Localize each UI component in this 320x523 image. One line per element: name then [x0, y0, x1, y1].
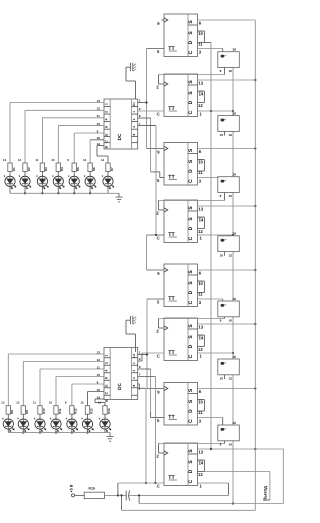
svg-text:C: C — [188, 236, 194, 240]
svg-text:U1: U1 — [132, 353, 136, 357]
LED HL1 — [2, 414, 14, 432]
svg-text:13: 13 — [3, 158, 7, 162]
capacitor C3 with ground — [126, 316, 136, 324]
junction LED4 on cathode rail — [57, 192, 59, 194]
DD6 Q-bar to D feedback loop wire — [198, 335, 205, 347]
wire DD6 Q to decoder DD10 input 2 — [138, 353, 164, 361]
svg-text:8: 8 — [132, 133, 136, 135]
DD3 output pin1 wire to +5V bus — [198, 148, 256, 150]
svg-text:2: 2 — [132, 118, 136, 120]
svg-text:16: 16 — [232, 355, 236, 359]
svg-text:4: 4 — [132, 377, 136, 379]
resistor R3 — [40, 163, 48, 172]
DD6 pin labels — [156, 325, 204, 359]
DD9 output wire 3 to LED column — [42, 118, 104, 163]
wire DD5 pin4 to switch SB5 — [198, 299, 223, 301]
junction LED5 on cathode rail — [71, 431, 73, 433]
wire DD1 pin3 to switch SB1 — [198, 49, 223, 52]
svg-text:R14: R14 — [107, 408, 111, 414]
svg-text:C: C — [188, 110, 194, 114]
flip-flop DD6 (TT) body — [164, 318, 198, 361]
DD10 output wire 3 to LED column — [40, 369, 104, 406]
right vertical wire to bottom rail — [282, 449, 284, 504]
wire DD1 pin11 to vertical line — [204, 42, 211, 44]
wire node down to lower rail — [122, 495, 256, 510]
svg-text:10: 10 — [198, 31, 203, 36]
flip-flop DD7 (TT) body — [164, 383, 198, 426]
LED HL7 — [99, 414, 111, 432]
svg-text:R15: R15 — [89, 487, 95, 491]
DD9 output wire 4 to LED column — [58, 125, 104, 163]
junction oscillator wire at x155.5 — [154, 482, 156, 484]
junction LED3 on cathode rail — [39, 431, 41, 433]
switch chain vertical wire — [232, 68, 234, 504]
junction on bus at DD8 pin1 — [254, 448, 256, 450]
junction oscillator wire at x146 — [145, 482, 147, 484]
decoder DD9 body — [104, 99, 138, 149]
SB5 left pin to clock wire — [224, 317, 226, 319]
LED cathode rail — [10, 192, 119, 194]
LED HL6 — [84, 172, 96, 194]
junction on bus at DD5 pin1 — [254, 269, 256, 271]
wire oscillator line to DD8 — [118, 482, 164, 484]
svg-text:R8: R8 — [10, 410, 14, 414]
svg-text:R13: R13 — [89, 408, 93, 414]
flip-flop DD3 (TT) body — [164, 143, 198, 186]
svg-text:D: D — [188, 226, 194, 230]
svg-text:10: 10 — [49, 401, 53, 405]
flip-flop DD2 (TT) body — [164, 74, 198, 117]
LED HL3 — [36, 172, 48, 194]
wire DD7 clock feed — [147, 388, 164, 390]
svg-text:D: D — [188, 100, 194, 104]
DD1 pin labels — [157, 21, 204, 55]
junction feedback/rail split — [138, 494, 140, 496]
junction oscillator node — [117, 494, 119, 496]
svg-text:1: 1 — [132, 111, 136, 113]
wire C3 to decoder power pin — [126, 320, 136, 352]
LED HL5 — [68, 172, 80, 194]
resistor R8 — [6, 406, 14, 415]
svg-text:DC: DC — [117, 383, 122, 390]
DD7 pin labels — [157, 389, 204, 423]
capacitor C2 with ground — [126, 63, 136, 71]
svg-text:8: 8 — [132, 384, 136, 386]
svg-text:2: 2 — [104, 362, 108, 364]
svg-text:C: C — [157, 235, 160, 240]
junction V211 with DD2 bottom pin wire — [210, 110, 212, 112]
wire DD8 pin12 to output — [204, 471, 270, 473]
svg-text:12: 12 — [18, 158, 22, 162]
wire DD2 pin4 to switch chain — [198, 110, 234, 112]
svg-text:15: 15 — [81, 401, 85, 405]
long vertical wire x=211 — [210, 43, 212, 450]
svg-text:R6: R6 — [92, 167, 96, 171]
svg-text:12: 12 — [198, 103, 203, 108]
junction LED2 on cathode rail — [22, 431, 24, 433]
DD2 pin labels — [156, 81, 204, 117]
junction on bus at DD2 pin1 — [254, 79, 256, 81]
junction on bus at DD7 pin1 — [254, 387, 256, 389]
resistor R2 — [23, 163, 31, 172]
svg-text:4: 4 — [104, 118, 108, 120]
DD9 output wire 6 to LED column — [90, 140, 104, 163]
svg-text:10: 10 — [198, 281, 203, 286]
LED HL4 — [50, 414, 62, 432]
svg-text:D: D — [188, 290, 194, 294]
junction DD5 Q line at decoder input — [146, 353, 148, 355]
junction LED2 on cathode rail — [24, 192, 26, 194]
ground symbol — [107, 433, 114, 442]
svg-text:C: C — [157, 483, 160, 488]
DD8 pin labels — [156, 450, 204, 489]
resistor R9 — [21, 406, 29, 415]
flip-flop DD4 (TT) body — [164, 200, 198, 243]
SB7 left pin to clock wire — [224, 441, 226, 444]
DD1 Q-bar to D feedback loop wire — [198, 31, 205, 43]
junction chain at DD6 pin4 — [232, 352, 234, 354]
svg-text:13: 13 — [198, 325, 203, 330]
DD2 clock feed wire from switch — [159, 75, 225, 85]
flip-flop DD1 (TT) body — [164, 14, 198, 57]
svg-text:D: D — [188, 40, 194, 44]
svg-text:2: 2 — [132, 369, 136, 371]
decoder DD10 body — [104, 348, 138, 402]
wire node up to DD8 clock line — [117, 483, 119, 495]
svg-text:13: 13 — [198, 450, 203, 455]
junction switch chain at bottom rail — [232, 502, 234, 504]
junction V211 at DD8 pin1 wire — [210, 448, 212, 450]
svg-text:10: 10 — [198, 160, 203, 165]
svg-text:R1: R1 — [12, 167, 16, 171]
junction LED4 on cathode rail — [55, 431, 57, 433]
junction chain at DD4 pin4 — [232, 234, 234, 236]
switch box SB7 — [218, 421, 240, 441]
svg-text:R5: R5 — [76, 167, 80, 171]
SB4 left pin stub — [224, 252, 226, 256]
DD8 clock feed wire from switch — [159, 444, 225, 454]
svg-text:11: 11 — [35, 158, 38, 162]
svg-text:10: 10 — [51, 158, 55, 162]
DD1 output pin1 wire to +5V bus — [198, 19, 256, 21]
junction LED3 on cathode rail — [41, 192, 43, 194]
wire down to bottom rail — [139, 495, 283, 503]
svg-text:12: 12 — [16, 401, 20, 405]
svg-text:1: 1 — [104, 355, 108, 357]
wire DD7 Q to decoder DD10 input 3 — [138, 369, 164, 418]
wire DD4 pin4 to switch chain — [198, 234, 234, 236]
junction LED6 on cathode rail — [86, 431, 88, 433]
svg-text:11: 11 — [33, 401, 36, 405]
svg-text:12: 12 — [198, 347, 203, 352]
svg-text:8: 8 — [104, 126, 108, 128]
svg-text:12: 12 — [229, 133, 233, 137]
svg-text:R4: R4 — [60, 167, 64, 171]
DD7 Q-bar to D feedback loop wire — [198, 400, 205, 412]
wire clock input stub DD1 — [161, 19, 164, 21]
resistor R13 — [85, 406, 93, 415]
resistor R1 — [8, 163, 16, 172]
ground symbol — [116, 193, 123, 202]
svg-text:10: 10 — [220, 377, 224, 381]
wire DD5 Q to decoder DD10 input 1 and DD7 clock — [138, 299, 164, 389]
resistor R11 — [54, 406, 62, 415]
LED HL2 — [19, 172, 31, 194]
svg-text:1: 1 — [132, 362, 136, 364]
svg-text:2: 2 — [104, 111, 108, 113]
wire DD8 Q / oscillator line to decoder DD10 input 4 — [138, 377, 156, 484]
switch box SB3 — [218, 173, 240, 193]
SB3 left pin to clock wire — [224, 193, 226, 201]
resistor R12 — [70, 406, 78, 415]
DD4 pin labels — [156, 207, 204, 241]
svg-text:C: C — [188, 479, 194, 483]
svg-text:10: 10 — [229, 318, 233, 322]
svg-text:C: C — [188, 179, 194, 183]
DD5 Q-bar to D feedback loop wire — [198, 281, 205, 293]
DD3 pin labels — [157, 149, 204, 183]
svg-text:1: 1 — [104, 103, 108, 105]
wire DD7 pin4 to switch SB7 — [198, 418, 223, 426]
DD5 pin labels — [157, 271, 204, 305]
svg-text:14: 14 — [98, 401, 102, 405]
wire DD3 pin4 to switch SB3 — [198, 177, 218, 179]
svg-text:16: 16 — [232, 232, 236, 236]
DD10 output wire 6 to LED column — [88, 392, 105, 406]
LED HL4 — [52, 172, 64, 194]
svg-text:R2: R2 — [27, 167, 31, 171]
svg-text:C: C — [157, 353, 160, 358]
svg-text:10: 10 — [220, 253, 224, 257]
resistor R14 — [103, 406, 111, 415]
wire DD4 Q to DD5 clock — [147, 235, 165, 270]
LED HL7 — [102, 172, 114, 194]
svg-text:D: D — [188, 409, 194, 413]
DD10 output wire 4 to LED column — [56, 377, 104, 406]
output bracket — [267, 472, 270, 501]
svg-text:D: D — [188, 344, 194, 348]
svg-text:R12: R12 — [74, 408, 78, 414]
svg-text:R3: R3 — [44, 167, 48, 171]
svg-text:C: C — [157, 111, 160, 116]
svg-text:16: 16 — [232, 111, 236, 115]
svg-text:13: 13 — [1, 401, 5, 405]
junction LED6 on cathode rail — [89, 192, 91, 194]
svg-text:16: 16 — [232, 297, 236, 301]
svg-text:12: 12 — [198, 229, 203, 234]
svg-text:8: 8 — [104, 377, 108, 379]
wire DD8 pin4 to oscillator capacitor node — [198, 483, 229, 495]
switch box SB6 — [218, 355, 240, 375]
DD10 output wire 1 to LED column — [8, 354, 104, 406]
SB6 left pin stub — [224, 375, 226, 379]
svg-text:R7: R7 — [110, 167, 114, 171]
DD5 output pin1 wire to +5V bus — [198, 269, 256, 271]
wire C1 to DD8 pin feedback — [129, 494, 228, 496]
DD10 output wire 7 to LED column — [95, 399, 105, 406]
svg-text:D: D — [188, 469, 194, 473]
resistor R15 — [84, 487, 104, 499]
svg-text:13: 13 — [198, 207, 203, 212]
wire C2 to decoder power pin — [126, 67, 136, 99]
svg-text:R10: R10 — [42, 408, 46, 414]
svg-text:C: C — [188, 50, 194, 54]
flip-flop DD8 (TT) body — [164, 443, 198, 486]
DD8 output pin1 wire to +5V bus — [198, 448, 256, 450]
wire branch DD4 Q to decoder DD9 input 4 — [138, 126, 156, 235]
svg-text:14: 14 — [101, 158, 105, 162]
DD3 Q-bar to D feedback loop wire — [198, 160, 205, 172]
DD9 output wire 2 to LED column — [25, 110, 104, 163]
switch box SB5 — [218, 297, 240, 317]
DD10 right pin number labels — [139, 351, 141, 377]
junction chain at DD2 pin4 — [232, 110, 234, 112]
junction on bus at DD6 pin1 — [254, 323, 256, 325]
svg-text:12: 12 — [198, 472, 203, 477]
svg-text:C: C — [188, 300, 194, 304]
DD9 output wire 1 to LED column — [10, 103, 104, 164]
DD9 right pin number labels — [139, 99, 141, 126]
junction LED5 on cathode rail — [73, 192, 75, 194]
wire terminal to resistor R15 — [75, 494, 85, 496]
resistor R10 — [38, 406, 46, 415]
junction DD4 Q branch — [155, 234, 157, 236]
LED HL3 — [34, 414, 46, 432]
junction node to bottom rail — [120, 494, 122, 496]
svg-text:16: 16 — [232, 173, 236, 177]
resistor R6 — [88, 163, 96, 172]
LED HL6 — [81, 414, 93, 432]
SB1 left pin to clock wire — [224, 68, 226, 75]
wire DD3 clock feed — [147, 148, 165, 150]
svg-text:D: D — [188, 169, 194, 173]
+5V supply terminal — [72, 494, 75, 497]
wire DD5 clock feed — [147, 269, 165, 271]
resistor R4 — [56, 163, 64, 172]
SB2 left pin stub — [224, 131, 226, 135]
svg-text:13: 13 — [198, 81, 203, 86]
junction on bus at DD3 pin1 — [254, 147, 256, 149]
DD7 output pin1 wire to +5V bus — [198, 388, 256, 390]
DD2 output pin1 wire to +5V bus — [198, 79, 256, 81]
svg-text:U1: U1 — [132, 102, 136, 106]
svg-text:16: 16 — [232, 48, 236, 52]
svg-text:4: 4 — [132, 126, 136, 128]
junction DD1 Q line at decoder input — [145, 101, 147, 103]
svg-text:C: C — [188, 354, 194, 358]
DD6 output pin1 wire to +5V bus — [198, 323, 256, 325]
switch box SB2 — [218, 111, 240, 131]
svg-text:12: 12 — [229, 377, 233, 381]
LED HL5 — [66, 414, 78, 432]
DD10 left pin number labels — [97, 350, 101, 399]
svg-text:10: 10 — [220, 133, 224, 137]
svg-text:R11: R11 — [58, 408, 62, 414]
switch box SB1 — [218, 48, 240, 68]
DD9 output wire 5 to LED column — [74, 133, 104, 163]
DD4 clock feed wire from switch — [159, 201, 225, 211]
resistor R7 — [106, 163, 114, 172]
svg-text:15: 15 — [83, 158, 87, 162]
resistor R5 — [72, 163, 80, 172]
svg-text:4: 4 — [104, 370, 108, 372]
svg-text:10: 10 — [229, 442, 233, 446]
DD8 Q-bar to D feedback loop wire — [198, 460, 205, 472]
svg-text:12: 12 — [229, 253, 233, 257]
LED cathode rail — [8, 432, 110, 434]
DD9 left pin number labels — [97, 99, 101, 146]
svg-text:16: 16 — [232, 421, 236, 425]
DD2 Q-bar to D feedback loop wire — [198, 91, 205, 103]
LED HL1 — [4, 172, 16, 194]
decoder DD10 second strobe stub — [138, 384, 140, 390]
capacitor C1 (polarized) — [126, 491, 130, 501]
+5V vertical supply bus — [254, 20, 256, 510]
wire DD3 Q to decoder DD9 input 3 — [138, 118, 164, 178]
DD8 pin1 wire extension to right corner — [255, 448, 283, 450]
svg-text:R9: R9 — [25, 410, 29, 414]
svg-text:Выход: Выход — [262, 486, 267, 501]
svg-text:10: 10 — [229, 194, 233, 198]
wire DD1 Q to decoder DD9 input 1 and DD3 clock — [138, 49, 164, 149]
DD9 output wire 7 to LED column — [97, 146, 108, 164]
svg-text:C: C — [188, 419, 194, 423]
DD10 output wire 2 to LED column — [23, 362, 104, 406]
wire decoder DD10 strobe to oscillator line — [138, 388, 146, 483]
svg-text:+5 В: +5 В — [70, 484, 74, 492]
svg-text:DC: DC — [117, 133, 122, 140]
DD10 output wire 5 to LED column — [72, 384, 104, 406]
wire DD2 Q to decoder DD9 input 2 — [138, 110, 164, 112]
switch box SB4 — [218, 232, 240, 252]
svg-text:10: 10 — [229, 69, 233, 73]
LED HL2 — [17, 414, 29, 432]
wire R15 to capacitor C1 — [104, 494, 126, 496]
flip-flop DD5 (TT) body — [164, 264, 198, 307]
junction on bus at DD4 pin1 — [254, 205, 256, 207]
svg-text:10: 10 — [198, 400, 203, 405]
DD4 Q-bar to D feedback loop wire — [198, 217, 205, 229]
wire DD6 pin4 to switch chain — [198, 352, 234, 354]
DD4 output pin1 wire to +5V bus — [198, 205, 256, 207]
DD6 clock feed wire from switch — [159, 319, 225, 329]
